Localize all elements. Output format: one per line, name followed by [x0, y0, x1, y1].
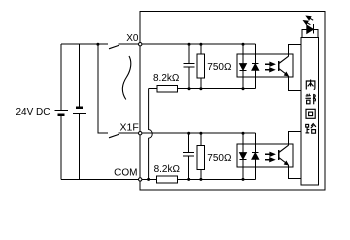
- svg-text:8.2kΩ: 8.2kΩ: [154, 164, 181, 175]
- wire: U2 emitter to internal circuit: [288, 165, 301, 179]
- junction: ch1 rail / D1 cathode: [242, 87, 245, 90]
- resistor R3 8.2k (channel2) body: [157, 176, 178, 183]
- wire: channel1 top wire X0 to optocoupler: [140, 43, 255, 45]
- wire: bottom return rail from battery to terminal COM: [61, 178, 140, 180]
- terminal X0: [139, 43, 142, 46]
- svg-text:8.2kΩ: 8.2kΩ: [153, 73, 180, 84]
- optocoupler U2 light arrows: [265, 152, 275, 161]
- capacitor C1 (channel1): [188, 44, 190, 63]
- wire: channel2 bottom rail from COM: [140, 178, 156, 180]
- battery BT1 left cell plates: [55, 109, 68, 111]
- optocoupler U1 phototransistor Q1: [278, 61, 280, 71]
- wire: top rail from battery to switch X0: [61, 43, 108, 45]
- svg-text:X0: X0: [126, 33, 139, 44]
- PLC enclosure box: [140, 11, 325, 190]
- wire: channel1 8.2k left lead: [149, 88, 157, 90]
- resistor R2 750 (channel1) body: [200, 44, 202, 54]
- svg-text:750Ω: 750Ω: [207, 62, 232, 73]
- wire: channel1 return drop with hop over X1F wire: [149, 89, 153, 180]
- wire: U1 emitter to internal circuit: [288, 76, 301, 90]
- svg-text:24V DC: 24V DC: [15, 107, 50, 118]
- capacitor C2 (channel2): [188, 133, 190, 152]
- break squiggle between input rows: [122, 56, 130, 100]
- kanji label: bu (part): [305, 94, 315, 105]
- battery BT1 left cell wires: [60, 44, 62, 110]
- junction: X0 wire / C1 top: [188, 43, 191, 46]
- wire: drop from top rail to switch X1F: [98, 44, 108, 133]
- kanji label: nai (inside): [306, 80, 315, 90]
- wire: U1 collector to internal circuit: [288, 45, 301, 57]
- optocoupler U1 light arrows: [265, 62, 275, 71]
- battery BT2 right cell wires: [79, 44, 81, 107]
- junction: COM wire / ch1 return: [147, 178, 150, 181]
- junction: X0 wire / R2 top: [199, 43, 202, 46]
- terminal X1F: [139, 132, 142, 135]
- svg-text:X1F: X1F: [120, 122, 139, 134]
- input indicator LED D5: [307, 25, 314, 33]
- kanji label: kai (circuit): [306, 109, 315, 118]
- internal circuit block (naibu kairo): [301, 37, 318, 185]
- svg-text:750Ω: 750Ω: [207, 153, 232, 164]
- optocoupler U1 LED D1 (down): [242, 44, 244, 63]
- junction: ch2 rail / D3 cathode: [242, 178, 245, 181]
- junction: ch2 rail / R4 bottom: [199, 178, 202, 181]
- input indicator LED holder rect: [302, 29, 318, 37]
- terminal COM: [139, 178, 142, 181]
- wire: switch X1F output to terminal X1F: [119, 132, 141, 134]
- wire: channel2 top wire X1F to optocoupler: [140, 132, 255, 134]
- junction: ch2 rail / C2 bottom: [187, 178, 190, 181]
- wire: U2 collector to internal circuit: [288, 131, 301, 145]
- switch X1F blade: [109, 134, 119, 137]
- wire: channel1 bottom rail: [178, 88, 256, 90]
- optocoupler U1 box (channel1): [237, 54, 293, 77]
- switch X0 blade: [109, 45, 119, 48]
- junction: X0 wire / D1 anode: [242, 43, 245, 46]
- LED emission arrows: [304, 16, 314, 25]
- resistor R4 750 (channel2) body: [200, 133, 202, 145]
- junction: X1F wire / D3 anode: [242, 132, 245, 135]
- optocoupler U2 LED D3 (down): [242, 133, 244, 152]
- svg-text:COM: COM: [114, 167, 137, 178]
- optocoupler U2 phototransistor Q2: [278, 150, 280, 160]
- junction: ch1 rail / C1 bottom: [188, 87, 191, 90]
- resistor R1 8.2k (channel1) body: [157, 85, 178, 92]
- junction: X1F wire / C2 top: [187, 132, 190, 135]
- junction: ch1 rail / R2 bottom: [199, 87, 202, 90]
- optocoupler U2 box (channel2): [237, 144, 293, 167]
- junction: X1F wire / R4 top: [199, 132, 202, 135]
- wire: switch X0 output to terminal X0: [119, 43, 141, 45]
- battery BT2 right cell plates: [76, 107, 83, 109]
- optocoupler U1 LED D2 (up): [254, 44, 256, 63]
- optocoupler U2 LED D4 (up): [254, 133, 256, 152]
- kanji label: ro (path): [306, 124, 316, 134]
- junction: top rail / X1F branch: [96, 43, 99, 46]
